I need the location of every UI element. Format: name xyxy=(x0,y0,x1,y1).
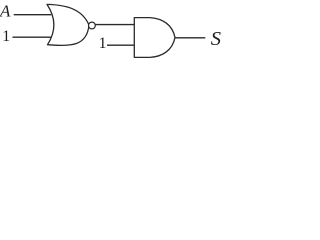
svg-text:A: A xyxy=(0,1,11,20)
wire 1 to AND input xyxy=(107,44,134,46)
wire 1 to NOR input xyxy=(13,36,53,38)
NOR gate U1 body (OR shape) xyxy=(47,4,89,45)
svg-text:1: 1 xyxy=(99,35,107,52)
wire NOR output to AND input xyxy=(95,24,134,26)
NOR gate U1 inversion bubble xyxy=(89,22,96,29)
wire A to NOR input xyxy=(14,14,52,16)
svg-text:1: 1 xyxy=(2,28,10,45)
AND gate U2 body xyxy=(134,18,175,58)
svg-text:S: S xyxy=(211,28,221,50)
wire AND output to S xyxy=(175,37,205,39)
